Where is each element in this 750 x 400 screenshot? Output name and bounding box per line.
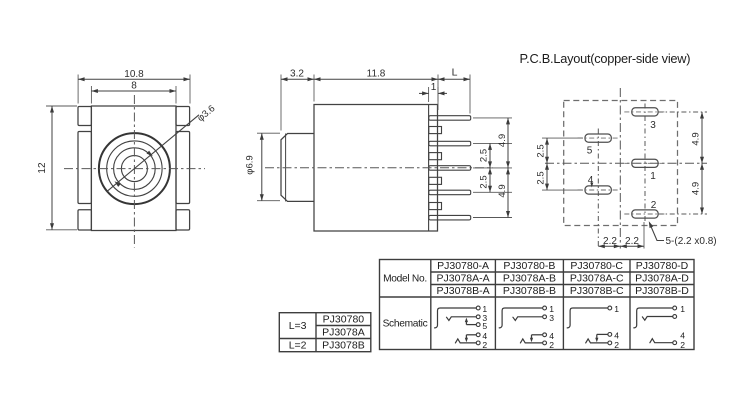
side view bushing <box>281 134 314 202</box>
schematic B tip contact to pin 1 <box>499 304 554 328</box>
svg-text:PJ3078B: PJ3078B <box>322 340 365 352</box>
svg-text:5: 5 <box>587 146 593 157</box>
svg-text:4.9: 4.9 <box>497 184 508 197</box>
svg-text:1: 1 <box>650 171 656 182</box>
svg-text:4.9: 4.9 <box>691 132 702 145</box>
svg-text:4: 4 <box>588 175 594 186</box>
side view rear bumps <box>429 127 442 210</box>
side view pin 3 <box>429 166 471 171</box>
schematic D ring contact to pin 2 <box>650 339 685 351</box>
front view right tabs <box>176 107 190 231</box>
svg-text:2.5: 2.5 <box>479 175 490 188</box>
schematic A contact pin 3 <box>447 313 488 323</box>
dimension L pin length <box>438 67 470 114</box>
schematic A ring contact to pin 2 <box>455 339 487 350</box>
side view horizontal centerline <box>265 167 493 169</box>
svg-text:11.8: 11.8 <box>367 69 386 80</box>
PCB vertical centerline <box>619 88 621 249</box>
pad 2 <box>632 210 658 218</box>
dimension 2.5 2.5 pin pitch <box>479 143 493 192</box>
svg-text:4.9: 4.9 <box>497 134 508 147</box>
svg-text:2: 2 <box>680 340 685 350</box>
svg-text:5: 5 <box>482 321 487 331</box>
schematic B pin 4 branch <box>530 331 554 342</box>
svg-text:4.9: 4.9 <box>691 182 702 195</box>
left pad column centerline <box>597 129 599 249</box>
svg-text:2: 2 <box>614 340 619 350</box>
PCB outline dashed <box>564 101 678 226</box>
svg-text:PJ3078B-D: PJ3078B-D <box>635 285 689 297</box>
front view horizontal centerline <box>64 168 205 170</box>
PCB horizontal centerline <box>545 162 707 164</box>
pad 5 <box>585 134 611 142</box>
right pad column centerline <box>644 104 646 223</box>
svg-text:2: 2 <box>651 200 657 211</box>
side view pin 4 <box>429 190 471 195</box>
svg-text:2.5: 2.5 <box>536 171 547 184</box>
svg-text:1: 1 <box>614 304 619 314</box>
front view body <box>91 106 176 231</box>
svg-text:Schematic: Schematic <box>383 319 428 330</box>
front view left tabs <box>78 107 91 231</box>
svg-text:PJ3078A-D: PJ3078A-D <box>635 273 689 285</box>
svg-text:2.2: 2.2 <box>625 236 639 247</box>
svg-text:2.5: 2.5 <box>536 144 547 157</box>
svg-text:3: 3 <box>549 313 554 323</box>
schematic B contact pin 3 <box>513 313 554 323</box>
svg-text:PJ30780-A: PJ30780-A <box>437 260 489 272</box>
svg-text:L: L <box>452 67 458 79</box>
svg-text:P.C.B.Layout(copper-side view): P.C.B.Layout(copper-side view) <box>520 51 691 66</box>
dimension 1 rear cap <box>419 82 447 110</box>
pad 1 <box>632 159 658 167</box>
svg-text:PJ3078B-A: PJ3078B-A <box>437 285 490 297</box>
front view vertical centerline <box>133 95 135 248</box>
dimension diameter 3.6 diagonal <box>107 103 218 192</box>
dimension 4.9 4.9 pin span <box>497 118 510 218</box>
svg-text:Model No.: Model No. <box>383 274 427 285</box>
svg-text:1: 1 <box>680 304 685 314</box>
svg-text:2: 2 <box>482 340 487 350</box>
dimension 8 width <box>91 81 176 104</box>
svg-text:4: 4 <box>680 330 685 340</box>
schematic C ring contact to pin 2 <box>586 339 620 350</box>
svg-text:PJ3078A-A: PJ3078A-A <box>437 273 490 285</box>
svg-text:L=3: L=3 <box>289 320 307 332</box>
svg-text:8: 8 <box>131 81 137 92</box>
pad 3 <box>632 108 658 116</box>
side view pin 2 <box>429 141 471 146</box>
svg-text:L=2: L=2 <box>289 340 307 352</box>
svg-text:12: 12 <box>37 162 48 174</box>
svg-text:2.5: 2.5 <box>479 149 490 162</box>
PCB dimension 4.9 4.9 right <box>658 112 707 214</box>
svg-text:1: 1 <box>431 82 437 93</box>
svg-text:5-(2.2 x0.8): 5-(2.2 x0.8) <box>666 236 717 247</box>
dimension diameter 6.9 bushing <box>245 133 281 201</box>
dimension 12 height <box>37 106 77 230</box>
schematic A pin 5 branch <box>465 318 488 331</box>
front view jack barrel circles <box>99 133 170 204</box>
svg-text:PJ3078A: PJ3078A <box>322 327 365 339</box>
side view pin 1 <box>429 116 471 121</box>
svg-text:PJ3078A-C: PJ3078A-C <box>570 273 624 285</box>
svg-text:10.8: 10.8 <box>124 69 144 80</box>
schematic C tip contact to pin 1 <box>567 304 619 328</box>
svg-text:PJ3078B-C: PJ3078B-C <box>570 285 624 297</box>
svg-text:3: 3 <box>650 120 656 131</box>
pad 4 <box>585 186 611 194</box>
schematic A tip contact to pin 1 <box>435 304 488 328</box>
schematic D tip contact to pin 1 <box>634 304 685 328</box>
svg-text:φ3.6: φ3.6 <box>195 103 217 124</box>
schematic D contact second throw <box>642 315 676 321</box>
pad size callout 5-(2.2x0.8) <box>649 221 717 247</box>
svg-text:PJ3078B-B: PJ3078B-B <box>503 285 556 297</box>
svg-text:φ6.9: φ6.9 <box>245 155 256 174</box>
schematic C pin 4 branch <box>595 331 619 343</box>
dimension 10.8 width <box>78 69 190 104</box>
PCB dimension 2.5 2.5 left <box>536 138 584 190</box>
side view body <box>314 105 438 232</box>
schematic B ring contact to pin 2 <box>520 339 554 350</box>
side view pin 5 <box>429 215 471 220</box>
PCB dimension 2.2 2.2 bottom <box>598 222 644 249</box>
svg-text:2.2: 2.2 <box>603 236 617 247</box>
svg-text:PJ30780-B: PJ30780-B <box>503 260 555 272</box>
svg-text:2: 2 <box>549 340 554 350</box>
svg-text:PJ30780-C: PJ30780-C <box>570 260 623 272</box>
dimension 11.8 body length <box>314 69 438 102</box>
schematic A pin 4 branch <box>465 331 488 342</box>
dimension 3.2 bushing length <box>281 69 314 131</box>
model table frame <box>380 260 695 350</box>
pin spacing extension lines <box>473 118 512 218</box>
svg-text:3.2: 3.2 <box>290 69 304 80</box>
L table frame <box>279 313 371 352</box>
svg-text:PJ30780-D: PJ30780-D <box>636 260 689 272</box>
svg-text:PJ3078A-B: PJ3078A-B <box>503 273 556 285</box>
svg-text:PJ30780: PJ30780 <box>323 314 365 326</box>
